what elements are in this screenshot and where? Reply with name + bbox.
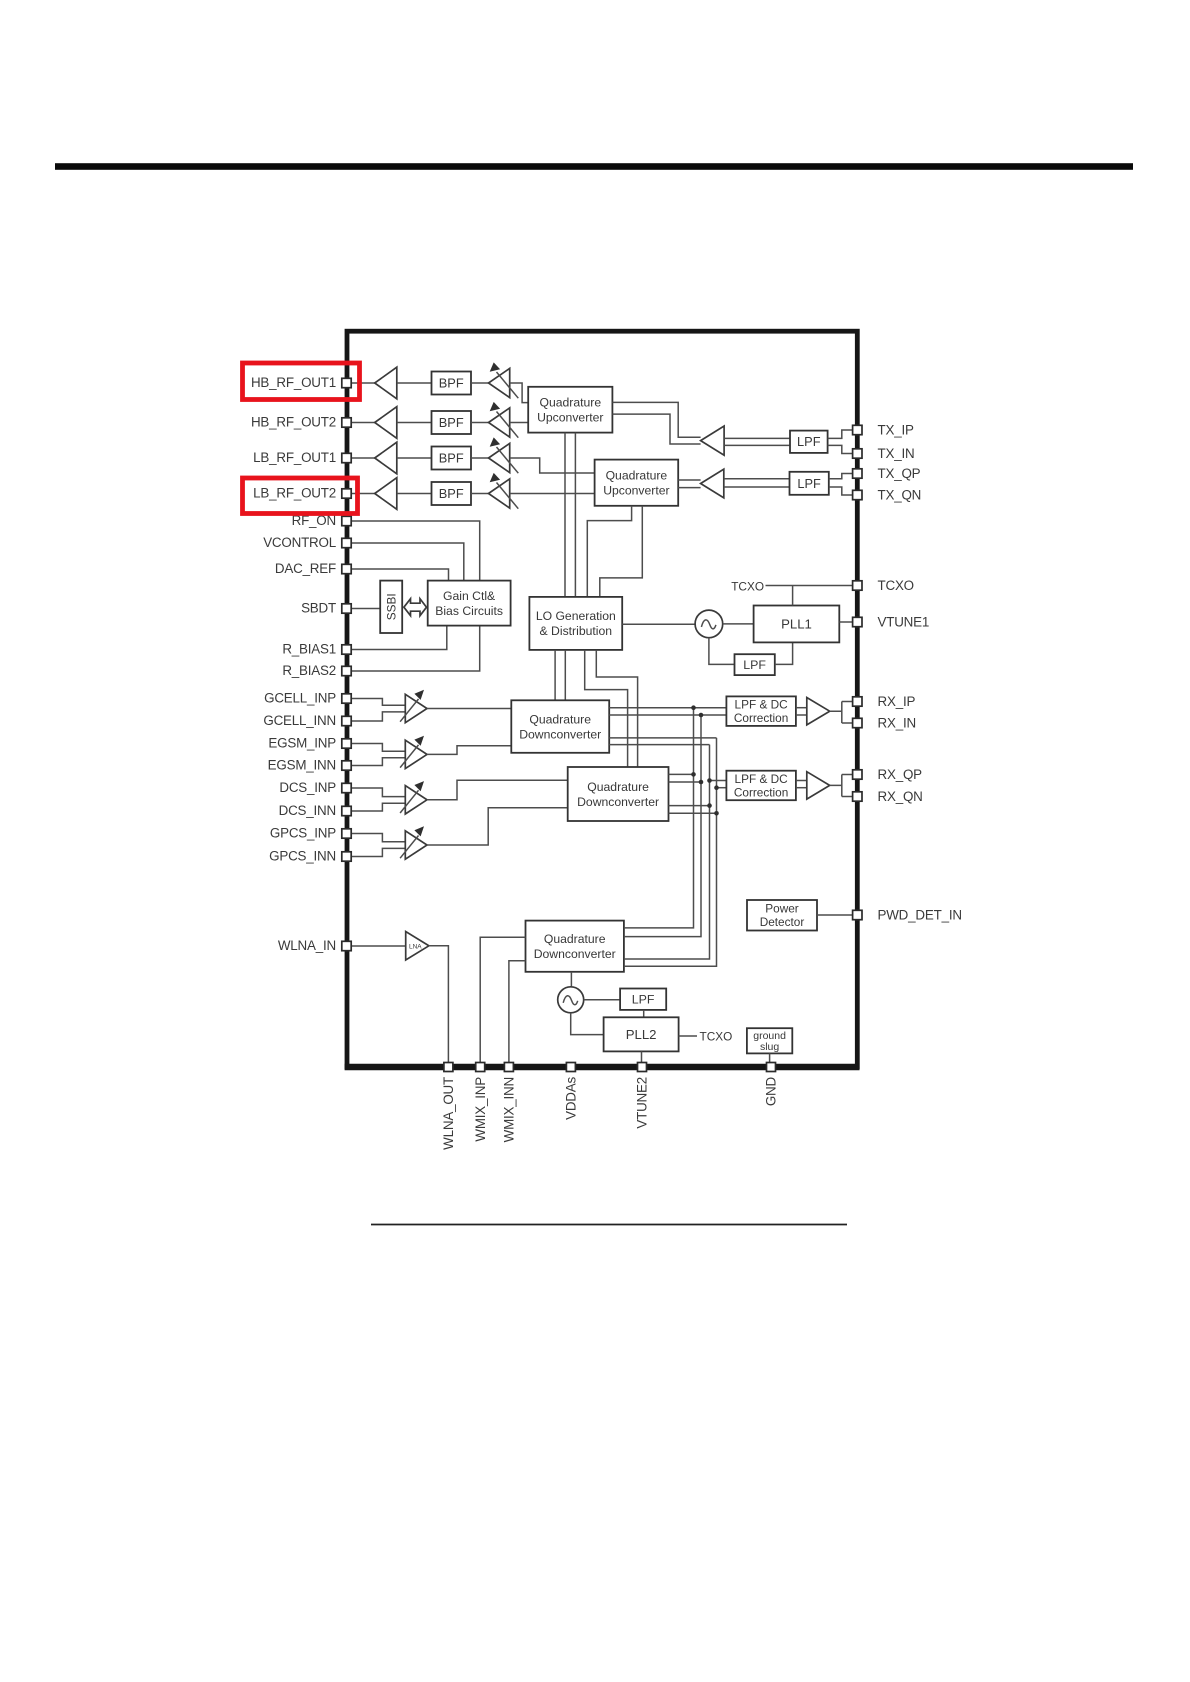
wire LPF to TX_QP pin bbox=[829, 474, 853, 479]
pin GND bbox=[767, 1063, 776, 1072]
pin EGSM_INP bbox=[342, 739, 351, 748]
wire LPF to TX_IP pin bbox=[828, 430, 853, 438]
svg-text:LNA: LNA bbox=[409, 944, 422, 951]
gain control and bias block bbox=[428, 581, 511, 626]
pin R_BIAS2 bbox=[342, 666, 351, 675]
wire LPF-DC2 to amp pair b bbox=[796, 787, 807, 789]
svg-text:LPF: LPF bbox=[743, 658, 766, 672]
power detector block bbox=[747, 900, 817, 931]
chip bottom edge (thick) bbox=[345, 1064, 860, 1070]
svg-text:TCXO: TCXO bbox=[700, 1029, 733, 1043]
pin HB_RF_OUT1 bbox=[342, 378, 351, 387]
svg-text:Quadrature: Quadrature bbox=[544, 932, 606, 946]
svg-text:BPF: BPF bbox=[439, 376, 464, 391]
quadrature upconverter U1 bbox=[528, 387, 612, 433]
junction node J4 bbox=[699, 780, 704, 785]
wire GCELL_INN to LNA amp bbox=[351, 712, 405, 721]
pin RF_ON bbox=[342, 516, 351, 525]
pin R_BIAS1 bbox=[342, 645, 351, 654]
wire SBDT to SSBI bbox=[351, 608, 380, 610]
wire BPF to attenuator row1 bbox=[471, 382, 489, 384]
pin HB_RF_OUT2 bbox=[342, 418, 351, 427]
wire bus to LPF-DC2 in a bbox=[710, 780, 727, 782]
wire pin to PA row2 bbox=[351, 422, 375, 424]
pin RX_IN bbox=[853, 718, 862, 727]
svg-text:Quadrature: Quadrature bbox=[587, 780, 649, 794]
junction node J1 bbox=[691, 705, 696, 710]
loop filter LPF1 bbox=[735, 654, 775, 675]
variable attenuator row4 bbox=[489, 473, 519, 509]
pin GCELL_INP bbox=[342, 694, 351, 703]
wire PA to BPF row1 bbox=[397, 382, 432, 384]
wire LPF2 to PLL2 bbox=[643, 1010, 645, 1017]
variable attenuator row1 bbox=[489, 362, 519, 398]
svg-text:PLL2: PLL2 bbox=[626, 1027, 657, 1042]
svg-text:Quadrature: Quadrature bbox=[529, 712, 591, 726]
LPF and DC correction 1 bbox=[726, 696, 796, 726]
pin RX_QP bbox=[853, 770, 862, 779]
wire PA to BPF row2 bbox=[397, 422, 432, 424]
variable attenuator row3 bbox=[489, 437, 519, 473]
svg-text:RX_QN: RX_QN bbox=[878, 789, 923, 804]
pin DCS_INN bbox=[342, 806, 351, 815]
svg-text:TCXO: TCXO bbox=[878, 578, 914, 593]
wire pin to PA row4 bbox=[351, 493, 375, 495]
WCDMA LNA amp bbox=[406, 932, 429, 961]
pin TX_IN bbox=[853, 449, 862, 458]
wire U1 input I bbox=[612, 402, 700, 437]
wire pin to PA row1 bbox=[351, 382, 375, 384]
wire ground slug to GND pin bbox=[769, 1053, 771, 1062]
wire EGSM_INP to LNA amp bbox=[351, 744, 405, 752]
top rule bar bbox=[55, 163, 1133, 170]
wire D3 to OSC2 bbox=[570, 972, 572, 987]
red highlight box LB_RF_OUT2 bbox=[243, 478, 358, 514]
svg-text:HB_RF_OUT1: HB_RF_OUT1 bbox=[251, 375, 336, 390]
wire D2 out d bbox=[669, 812, 717, 814]
chip outline bbox=[347, 331, 857, 1067]
pin WLNA_IN bbox=[342, 941, 351, 950]
svg-text:RX_QP: RX_QP bbox=[878, 767, 923, 782]
quadrature downconverter D1 bbox=[511, 700, 609, 753]
svg-text:WMIX_INN: WMIX_INN bbox=[502, 1077, 517, 1142]
quadrature downconverter D3 bbox=[526, 921, 624, 972]
svg-text:BPF: BPF bbox=[439, 486, 464, 501]
wire OSC1 to PLL1 bbox=[723, 623, 754, 625]
svg-text:Correction: Correction bbox=[734, 785, 788, 799]
footnote separator line bbox=[371, 1224, 847, 1226]
wire LO out a to downconverter D1 bbox=[554, 650, 556, 700]
svg-text:GPCS_INN: GPCS_INN bbox=[269, 849, 336, 864]
wire atten row4 to upconverter U2 bbox=[510, 493, 595, 495]
wire TCXO net to pin bbox=[766, 585, 853, 587]
svg-text:GCELL_INN: GCELL_INN bbox=[263, 713, 336, 728]
svg-text:LPF: LPF bbox=[797, 476, 821, 491]
pin GPCS_INP bbox=[342, 829, 351, 838]
wire U2 LO feed b bbox=[600, 506, 643, 597]
pin VTUNE1 bbox=[853, 617, 862, 626]
oscillator symbol OSC2 bbox=[558, 987, 584, 1013]
wire D2 out c bbox=[669, 805, 710, 807]
wire D2 out b bbox=[669, 781, 702, 783]
pin VCONTROL bbox=[342, 538, 351, 547]
loop filter LPF2 bbox=[620, 989, 666, 1010]
bidirectional bus arrow bbox=[404, 599, 427, 616]
svg-text:EGSM_INN: EGSM_INN bbox=[268, 758, 336, 773]
svg-text:slug: slug bbox=[760, 1041, 779, 1053]
wire TCXO net to PLL1 top bbox=[792, 586, 794, 606]
svg-text:Gain Ctl&: Gain Ctl& bbox=[443, 589, 495, 603]
bus vertical net2 bbox=[624, 715, 701, 937]
quadrature upconverter U2 bbox=[595, 460, 679, 506]
svg-text:TX_IP: TX_IP bbox=[878, 423, 914, 438]
bus vertical net4 bbox=[624, 738, 717, 966]
wire D1 out Q2 bbox=[609, 744, 709, 746]
pin VDDAs bbox=[566, 1063, 575, 1072]
oscillator symbol OSC1 bbox=[695, 610, 723, 638]
wire amp B2 to RX_QP RX_QN pins bbox=[830, 775, 853, 797]
RX output amp B1 bbox=[807, 698, 830, 725]
pin PWD_DET_IN bbox=[853, 910, 862, 919]
svg-text:RX_IN: RX_IN bbox=[878, 716, 916, 731]
junction node J8 bbox=[714, 811, 719, 816]
PA amplifier row1 bbox=[375, 367, 397, 399]
pin SBDT bbox=[342, 604, 351, 613]
wire LO to oscillator bbox=[622, 623, 695, 625]
svg-text:Detector: Detector bbox=[760, 915, 805, 929]
wire PLL1 to VTUNE1 pin bbox=[839, 621, 852, 623]
BPF filter row3 bbox=[432, 447, 472, 470]
wire D1 out Q to LPF-DC1 bbox=[609, 714, 726, 716]
svg-text:WMIX_INP: WMIX_INP bbox=[473, 1077, 488, 1142]
wire LPF-DC1 to amp pair b bbox=[796, 714, 807, 716]
PA amplifier row4 bbox=[375, 478, 397, 510]
svg-text:HB_RF_OUT2: HB_RF_OUT2 bbox=[251, 415, 336, 430]
wire power detector to PWD_DET_IN pin bbox=[817, 914, 853, 916]
svg-text:GCELL_INP: GCELL_INP bbox=[264, 691, 336, 706]
wire DAC_REF to gain block bbox=[351, 569, 449, 581]
wire amp A2 to LPF pair lower bbox=[724, 486, 790, 488]
svg-text:BPF: BPF bbox=[439, 451, 464, 466]
variable gain amp GPCS bbox=[400, 826, 427, 859]
wire DCS_INP to LNA amp bbox=[351, 788, 405, 797]
pin WLNA_OUT bbox=[444, 1063, 453, 1072]
wire WMIX_INP to D3 bbox=[480, 937, 525, 1062]
wire LO out c to downconverter D2 bbox=[585, 650, 628, 767]
PLL2 block bbox=[604, 1017, 679, 1051]
pin RX_QN bbox=[853, 792, 862, 801]
svg-text:GND: GND bbox=[764, 1076, 779, 1106]
TX buffer amp A1 bbox=[701, 426, 725, 455]
svg-text:PLL1: PLL1 bbox=[781, 617, 812, 632]
svg-text:R_BIAS1: R_BIAS1 bbox=[282, 642, 336, 657]
pin TCXO bbox=[853, 581, 862, 590]
wire GCELL_INP to LNA amp bbox=[351, 699, 405, 706]
LPF TX I-path bbox=[790, 431, 828, 453]
svg-text:BPF: BPF bbox=[439, 415, 464, 430]
wire EGSM_INN to LNA amp bbox=[351, 758, 405, 766]
wire LPF1 to PLL1 bottom bbox=[775, 642, 793, 664]
wire LPF-DC1 to amp pair a bbox=[796, 707, 807, 709]
svg-text:Downconverter: Downconverter bbox=[519, 727, 601, 741]
svg-text:PWD_DET_IN: PWD_DET_IN bbox=[878, 908, 962, 923]
wire U1 LO feed b bbox=[574, 433, 576, 597]
svg-text:TX_IN: TX_IN bbox=[878, 446, 915, 461]
wire BPF to attenuator row3 bbox=[471, 457, 489, 459]
TX buffer amp A2 bbox=[701, 469, 724, 498]
wire PA to BPF row4 bbox=[397, 493, 432, 495]
pin DCS_INP bbox=[342, 783, 351, 792]
wire atten row3 to upconverter U2 bbox=[510, 458, 595, 473]
svg-text:& Distribution: & Distribution bbox=[540, 624, 612, 638]
bus vertical net1 bbox=[624, 708, 694, 928]
wire WLNA_IN to LNA bbox=[351, 945, 406, 947]
quadrature downconverter D2 bbox=[568, 767, 669, 821]
wire PLL2 to VTUNE2 pin bbox=[641, 1051, 643, 1062]
svg-text:Quadrature: Quadrature bbox=[539, 396, 601, 410]
svg-text:TX_QN: TX_QN bbox=[878, 488, 922, 503]
svg-text:Correction: Correction bbox=[734, 711, 788, 725]
bus vertical net3 bbox=[624, 745, 710, 959]
junction node J7 bbox=[707, 803, 712, 808]
wire atten row2 to upconverter U1 bbox=[510, 422, 529, 424]
wire U2 input I bbox=[678, 479, 700, 481]
LO generation block bbox=[529, 597, 622, 650]
svg-text:Upconverter: Upconverter bbox=[603, 484, 669, 498]
ground slug pad bbox=[747, 1028, 792, 1053]
BPF filter row2 bbox=[432, 411, 472, 434]
svg-text:DAC_REF: DAC_REF bbox=[275, 561, 336, 576]
svg-text:Bias Circuits: Bias Circuits bbox=[435, 604, 503, 618]
svg-text:VDDAs: VDDAs bbox=[564, 1077, 579, 1120]
pin TX_IP bbox=[853, 425, 862, 434]
BPF filter row1 bbox=[432, 372, 472, 395]
svg-text:SBDT: SBDT bbox=[301, 601, 336, 616]
svg-text:Upconverter: Upconverter bbox=[537, 411, 603, 425]
svg-text:LB_RF_OUT2: LB_RF_OUT2 bbox=[253, 486, 336, 501]
junction node J3 bbox=[691, 772, 696, 777]
LPF and DC correction 2 bbox=[726, 771, 796, 801]
svg-text:WLNA_OUT: WLNA_OUT bbox=[441, 1077, 456, 1150]
svg-text:GPCS_INP: GPCS_INP bbox=[270, 826, 336, 841]
BPF filter row4 bbox=[432, 482, 472, 505]
svg-text:Quadrature: Quadrature bbox=[606, 469, 668, 483]
wire OSC2 to PLL2 left bbox=[571, 1013, 604, 1035]
pin VTUNE2 bbox=[638, 1063, 647, 1072]
pin WMIX_INP bbox=[476, 1063, 485, 1072]
wire PLL2 to TCXO label bbox=[679, 1035, 697, 1037]
wire DCS_INN to LNA amp bbox=[351, 803, 405, 811]
junction node J6 bbox=[714, 785, 719, 790]
variable gain amp DCS bbox=[400, 781, 427, 814]
svg-text:DCS_INP: DCS_INP bbox=[279, 780, 336, 795]
wire LPF to TX_QN pin bbox=[829, 487, 853, 495]
wire LNA out to WLNA_OUT pin bbox=[429, 946, 449, 1063]
svg-text:Power: Power bbox=[765, 902, 799, 916]
pin TX_QN bbox=[853, 490, 862, 499]
wire LPF to TX_IN pin bbox=[828, 445, 853, 453]
PLL1 block bbox=[754, 606, 840, 643]
svg-text:VTUNE1: VTUNE1 bbox=[878, 615, 930, 630]
wire amp B1 to RX_IP RX_IN pins bbox=[830, 702, 853, 724]
wire DCS amp output bbox=[427, 780, 568, 800]
variable gain amp EGSM bbox=[400, 736, 427, 769]
wire BPF to attenuator row2 bbox=[471, 422, 489, 424]
wire atten row1 to upconverter U1 bbox=[510, 383, 529, 403]
LPF TX Q-path bbox=[790, 472, 829, 495]
wire D1 out I to LPF-DC1 bbox=[609, 707, 726, 709]
wire amp A1 to LPF pair lower bbox=[724, 444, 790, 446]
svg-text:TCXO: TCXO bbox=[731, 579, 764, 593]
svg-text:WLNA_IN: WLNA_IN bbox=[278, 938, 336, 953]
svg-text:LPF: LPF bbox=[632, 993, 655, 1007]
PA amplifier row2 bbox=[375, 407, 397, 439]
wire LO out d to downconverter D2 bbox=[596, 650, 637, 767]
wire GCELL amp output bbox=[427, 708, 511, 710]
wire R_BIAS1 to gain block bbox=[351, 626, 447, 650]
pin GCELL_INN bbox=[342, 716, 351, 725]
wire GPCS amp output bbox=[427, 808, 568, 845]
wire EGSM amp output bbox=[427, 746, 511, 755]
svg-text:RX_IP: RX_IP bbox=[878, 694, 916, 709]
wire bus to LPF-DC2 in b bbox=[717, 787, 727, 789]
svg-text:VCONTROL: VCONTROL bbox=[263, 535, 336, 550]
wire OSC1 to loop LPF bbox=[709, 638, 735, 665]
pin DAC_REF bbox=[342, 564, 351, 573]
svg-text:Downconverter: Downconverter bbox=[577, 795, 659, 809]
PA amplifier row3 bbox=[375, 442, 397, 474]
wire U1 input Q bbox=[612, 414, 700, 444]
svg-text:EGSM_INP: EGSM_INP bbox=[268, 736, 336, 751]
svg-text:SSBI: SSBI bbox=[384, 593, 398, 620]
svg-text:LPF: LPF bbox=[797, 434, 821, 449]
wire OSC2 to LPF2 bbox=[584, 999, 620, 1001]
svg-text:LO Generation: LO Generation bbox=[536, 609, 616, 623]
pin RX_IP bbox=[853, 697, 862, 706]
pin EGSM_INN bbox=[342, 761, 351, 770]
pin WMIX_INN bbox=[504, 1063, 513, 1072]
svg-text:LPF & DC: LPF & DC bbox=[735, 698, 789, 712]
wire GPCS_INP to LNA amp bbox=[351, 834, 405, 842]
wire pin to PA row3 bbox=[351, 457, 375, 459]
svg-text:TX_QP: TX_QP bbox=[878, 466, 921, 481]
wire VCONTROL to gain block bbox=[351, 543, 464, 581]
SSBI interface block bbox=[380, 581, 402, 633]
wire R_BIAS2 to gain block bbox=[351, 626, 480, 671]
pin LB_RF_OUT1 bbox=[342, 453, 351, 462]
wire RF_ON to gain block bbox=[351, 521, 480, 581]
wire WMIX_INN to D3 bbox=[509, 961, 526, 1063]
svg-text:Downconverter: Downconverter bbox=[534, 947, 616, 961]
variable gain amp GCELL bbox=[400, 690, 427, 723]
svg-text:VTUNE2: VTUNE2 bbox=[635, 1077, 650, 1129]
wire U2 LO feed a bbox=[587, 506, 631, 597]
svg-text:DCS_INN: DCS_INN bbox=[279, 803, 336, 818]
wire U1 LO feed a bbox=[564, 433, 566, 597]
red highlight box HB_RF_OUT1 bbox=[243, 363, 360, 400]
pin LB_RF_OUT2 bbox=[342, 489, 351, 498]
wire PA to BPF row3 bbox=[397, 457, 432, 459]
wire amp A1 to LPF pair upper bbox=[724, 437, 790, 439]
RX output amp B2 bbox=[807, 772, 830, 799]
pin GPCS_INN bbox=[342, 852, 351, 861]
wire U2 input Q bbox=[678, 487, 700, 489]
junction node J2 bbox=[699, 713, 704, 718]
svg-text:LB_RF_OUT1: LB_RF_OUT1 bbox=[253, 450, 336, 465]
wire D2 out a bbox=[669, 773, 694, 775]
wire LO out b to downconverter D1 bbox=[564, 650, 566, 700]
svg-text:R_BIAS2: R_BIAS2 bbox=[282, 663, 336, 678]
wire BPF to attenuator row4 bbox=[471, 493, 489, 495]
wire GPCS_INN to LNA amp bbox=[351, 848, 405, 856]
wire D1 out I2 bbox=[609, 737, 716, 739]
wire LPF-DC2 to amp pair a bbox=[796, 780, 807, 782]
svg-text:LPF & DC: LPF & DC bbox=[735, 772, 789, 786]
wire amp A2 to LPF pair upper bbox=[724, 478, 790, 480]
variable attenuator row2 bbox=[489, 402, 519, 438]
junction node J5 bbox=[707, 778, 712, 783]
pin TX_QP bbox=[853, 469, 862, 478]
